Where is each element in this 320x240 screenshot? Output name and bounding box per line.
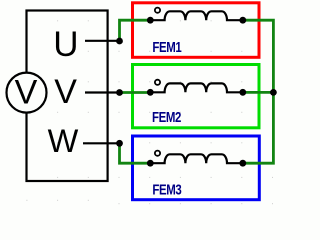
svg-text:V: V (15, 73, 38, 111)
svg-text:U: U (53, 25, 78, 64)
svg-text:V: V (54, 73, 77, 111)
svg-text:FEM3: FEM3 (152, 181, 181, 198)
svg-text:W: W (48, 123, 79, 159)
svg-text:FEM2: FEM2 (152, 108, 181, 125)
svg-text:FEM1: FEM1 (152, 39, 181, 56)
